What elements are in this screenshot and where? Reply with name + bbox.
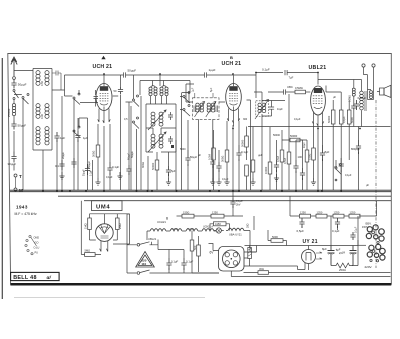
svg-text:0,02µF: 0,02µF: [358, 96, 367, 100]
switch mains2: [137, 270, 158, 274]
tube1 pin drops: [98, 124, 110, 190]
capacitor under osc d: [185, 120, 197, 190]
capacitor 30pF: [8, 152, 17, 171]
cap 296: [293, 140, 302, 190]
svg-text:α/: α/: [47, 275, 52, 281]
tube socket view 1: [366, 225, 384, 244]
svg-text:O.LU: O.LU: [34, 247, 40, 250]
svg-text:UCH21: UCH21: [157, 220, 166, 224]
resistor pwr2: [197, 236, 201, 272]
svg-text:M.F = 475 kHz: M.F = 475 kHz: [15, 212, 37, 216]
svg-text:0,5M: 0,5M: [283, 158, 287, 164]
label UBL21: [309, 65, 327, 71]
bottom wire: [158, 272, 219, 274]
resistor 30ohm bottom: [244, 267, 391, 274]
svg-text:50000: 50000: [290, 134, 298, 138]
svg-text:50µµF: 50µµF: [84, 169, 86, 176]
svg-text:300Ω: 300Ω: [92, 151, 96, 157]
switch S1a: [13, 90, 19, 100]
capacitor 219: [216, 150, 221, 185]
svg-text:220V.: 220V.: [365, 265, 373, 269]
svg-text:50000: 50000: [327, 115, 331, 123]
svg-text:UCH 21: UCH 21: [93, 64, 113, 70]
svg-text:1250: 1250: [300, 210, 306, 214]
osc top rail: [140, 81, 190, 96]
switch S2b: [180, 93, 190, 117]
svg-text:4150: 4150: [215, 222, 221, 226]
ground bus main: [10, 190, 391, 192]
T3 coil: [255, 100, 269, 120]
detector coupling cap: [268, 85, 295, 94]
svg-text:µF: µF: [333, 96, 336, 99]
svg-text:5µF: 5µF: [210, 87, 213, 92]
svg-text:0,5µF: 0,5µF: [297, 229, 305, 233]
marker A: [101, 56, 105, 59]
capacitor below coil: [11, 121, 26, 152]
svg-text:1250: 1250: [350, 210, 356, 214]
svg-text:5000: 5000: [272, 235, 278, 239]
svg-text:0,1µF: 0,1µF: [342, 116, 346, 123]
coil L5: [36, 127, 40, 145]
svg-text:50000: 50000: [273, 134, 281, 137]
svg-text:UM4: UM4: [96, 205, 110, 211]
resistor right1: [327, 100, 335, 190]
svg-text:2MΩ: 2MΩ: [118, 223, 122, 229]
svg-text:UY 21: UY 21: [303, 239, 318, 245]
svg-text:UBL21: UBL21: [309, 65, 327, 71]
right mid components: [351, 127, 361, 191]
osc switch contacts lower: [133, 117, 140, 129]
rotated label osc: [128, 152, 146, 168]
trimmer cap B: [168, 136, 174, 148]
capacitor 8uF a: [322, 246, 335, 266]
T3 vertical wire: [247, 92, 263, 190]
svg-text:7µF: 7µF: [289, 76, 294, 80]
capacitor under tube1: [107, 145, 119, 190]
power wiring left: [127, 214, 137, 273]
resistor under UBL: [307, 148, 316, 185]
wire coils to mixer grid: [52, 90, 79, 140]
svg-text:UBC: UBC: [287, 85, 293, 89]
svg-text:µF: µF: [198, 154, 201, 157]
svg-text:5µF: 5µF: [171, 169, 176, 173]
chassis dash-dot line: [375, 100, 377, 268]
resistor UM4 right: [113, 214, 122, 240]
svg-text:800µµF: 800µµF: [351, 147, 360, 151]
svg-text:B: B: [230, 55, 233, 60]
socket heater wire: [358, 244, 366, 246]
capacitor 50pF antenna: [11, 80, 26, 89]
speaker voice coil: [368, 90, 374, 100]
socket label 220V: [365, 265, 373, 269]
resistor 307: [305, 140, 309, 190]
svg-text:UCH21: UCH21: [187, 229, 195, 231]
vibrator wires: [231, 246, 297, 277]
left bus vertical: [65, 75, 73, 96]
label 6V: [209, 244, 219, 255]
svg-text:0,1: 0,1: [55, 164, 59, 168]
cap pair mid left: [114, 75, 124, 190]
output transformer: [318, 80, 366, 127]
cap right rotated label: [350, 226, 357, 240]
svg-text:1250: 1250: [317, 210, 323, 214]
svg-text:0,1µF: 0,1µF: [112, 165, 119, 169]
cap 302: [296, 140, 305, 190]
switch S1c: [73, 93, 98, 105]
svg-text:100: 100: [298, 155, 303, 159]
chain cap b: [332, 218, 340, 233]
chain r5: [333, 210, 349, 218]
chain r3: [290, 210, 316, 218]
svg-text:0,1µF: 0,1µF: [171, 260, 178, 264]
terminal M: [14, 177, 23, 193]
svg-text:5MΩ: 5MΩ: [85, 249, 91, 253]
svg-text:50µµF: 50µµF: [18, 124, 27, 128]
svg-text:BELL 48: BELL 48: [13, 275, 37, 281]
capacitor T2 below: [210, 158, 215, 185]
svg-text:1250: 1250: [334, 210, 340, 214]
tube UCH21 no1: [96, 84, 112, 124]
switch S1b: [14, 94, 29, 191]
svg-text:2kV: 2kV: [236, 202, 241, 206]
capacitor left drop2: [71, 158, 76, 168]
resistor 289: [283, 94, 291, 190]
svg-text:11µF: 11µF: [277, 107, 283, 111]
resistor 270: [264, 127, 272, 190]
capacitor left drop3: [84, 160, 93, 190]
resistor 213: [207, 130, 215, 190]
right bus y128: [234, 86, 391, 127]
trimmer cap A: [168, 112, 173, 120]
BELL 48 box: [11, 272, 60, 281]
antenna terminal: [13, 77, 16, 80]
svg-text:0,5: 0,5: [124, 118, 128, 121]
T2 wires: [186, 84, 225, 190]
choke vertical: [248, 246, 252, 267]
label UY21: [303, 239, 318, 245]
svg-text:8µF: 8µF: [322, 247, 327, 251]
resistor under osc a: [151, 160, 159, 190]
svg-text:8µF: 8µF: [325, 150, 330, 154]
resistor right2: [339, 92, 346, 190]
svg-text:0.50: 0.50: [40, 80, 44, 86]
resistor 246: [240, 127, 248, 161]
resistor 250 zigzag: [331, 216, 358, 272]
svg-text:30Ω: 30Ω: [259, 267, 264, 271]
heater chain row: [150, 226, 216, 232]
svg-text:T: T: [19, 174, 22, 179]
capacitor under osc: [166, 166, 176, 185]
grid connections tube1: [94, 90, 119, 107]
svg-text:PU: PU: [35, 252, 39, 255]
bus line2: [58, 195, 391, 197]
svg-text:1250: 1250: [212, 210, 218, 214]
svg-text:1µµF: 1µµF: [209, 68, 216, 72]
coil 2500ohm: [7, 100, 16, 121]
svg-text:5000: 5000: [180, 148, 186, 151]
chain r4: [316, 210, 333, 218]
rotary band switch: [25, 235, 40, 255]
svg-text:2500Ω: 2500Ω: [7, 109, 11, 117]
svg-text:0,1µF: 0,1µF: [236, 199, 243, 203]
svg-text:50000: 50000: [240, 139, 244, 147]
osc vertical drops: [131, 93, 190, 191]
top right bus caps: [256, 68, 318, 99]
UM4 wiring loop: [90, 214, 130, 244]
svg-text:UCH21: UCH21: [171, 229, 179, 231]
svg-text:0,1µF: 0,1µF: [262, 68, 270, 72]
resistor 4150 box: [210, 222, 230, 231]
label 8uF 450V: [335, 247, 345, 255]
trimmer cap top: [52, 71, 61, 91]
svg-text:UCH 21: UCH 21: [222, 61, 242, 67]
svg-text:50µµF: 50µµF: [131, 150, 134, 158]
svg-text:50µµF: 50µµF: [128, 69, 137, 73]
tube2 plate wire: [234, 75, 257, 84]
bottom long wire: [192, 273, 391, 277]
resistor 246b: [245, 165, 249, 190]
chain r6: [349, 210, 377, 218]
capacitor pwr1: [158, 245, 178, 273]
tube UM4: [96, 214, 114, 252]
T3 top wire: [262, 101, 285, 117]
capacitor 8uF b: [350, 246, 357, 266]
svg-text:5000: 5000: [350, 117, 354, 123]
svg-text:0.30: 0.30: [40, 113, 44, 119]
svg-text:250Ω: 250Ω: [339, 268, 346, 272]
label 1943: [15, 205, 37, 217]
schematic border frame: [8, 54, 392, 285]
heater row right: [226, 223, 257, 252]
svg-text:0,5M: 0,5M: [276, 156, 280, 162]
antenna coil L1: [36, 71, 40, 86]
svg-text:110: 110: [141, 262, 146, 266]
tuned coil group A: [148, 110, 166, 130]
svg-text:150Ω: 150Ω: [183, 210, 189, 214]
socket label B5V: [366, 221, 372, 225]
resistor 253: [250, 127, 255, 186]
svg-text:OND: OND: [34, 237, 40, 240]
cap 341 low: [334, 158, 344, 190]
vibrator unit: [219, 247, 245, 272]
bus line3: [84, 200, 391, 202]
RF coupling coil pair A: [149, 86, 157, 104]
svg-text:300Ω: 300Ω: [221, 156, 225, 162]
chain cap a: [297, 218, 305, 233]
svg-text:50µµF: 50µµF: [88, 160, 91, 168]
coil L6: [45, 127, 49, 145]
label UM4 box: [92, 201, 123, 211]
IF can T3: [256, 101, 269, 117]
RF coupling coil pair B: [160, 86, 168, 104]
svg-text:20µµF: 20µµF: [62, 151, 65, 159]
resistor 0.5M horizontal: [295, 86, 310, 94]
terminal T: [14, 174, 22, 179]
misc value labels: [62, 96, 369, 187]
chain resistor 1250: [194, 210, 233, 218]
coil L3: [36, 104, 40, 119]
svg-text:0,1µF: 0,1µF: [106, 176, 113, 179]
resistor 5000 horiz: [268, 230, 287, 246]
svg-text:0,1µF: 0,1µF: [241, 150, 248, 154]
antenna: [11, 57, 17, 76]
svg-text:50000: 50000: [151, 162, 155, 170]
warning triangle 220V: [136, 252, 155, 268]
svg-text:10µF: 10µF: [303, 142, 306, 148]
svg-text:50: 50: [114, 89, 117, 93]
svg-text:450V: 450V: [338, 250, 345, 255]
svg-text:1MΩ: 1MΩ: [83, 223, 87, 229]
scan page edge: [1, 58, 3, 299]
svg-text:0,5MΩ: 0,5MΩ: [350, 95, 352, 102]
svg-text:30µµF: 30µµF: [8, 162, 17, 166]
T2 coil group b: [206, 102, 216, 118]
svg-text:300Ω: 300Ω: [142, 162, 145, 168]
resistor horizontal 296: [282, 134, 307, 142]
switch S2a: [180, 92, 190, 104]
tube2 pin drops: [227, 121, 239, 190]
svg-text:0,1µF: 0,1µF: [222, 178, 229, 181]
svg-text:0,5MΩ: 0,5MΩ: [295, 86, 303, 90]
svg-text:1µF: 1µF: [192, 87, 195, 92]
chain verticals: [254, 196, 377, 230]
osc switch contacts upper: [133, 75, 140, 107]
resistor 282: [276, 130, 284, 190]
cap 276: [274, 140, 279, 190]
svg-text:0,1µF: 0,1µF: [355, 226, 358, 233]
cap 128: [126, 102, 133, 190]
capacitor 1uF left: [54, 132, 65, 190]
capacitor under UBL: [320, 145, 330, 190]
T3 trimmer cap: [269, 105, 283, 112]
label 150V: [362, 225, 369, 229]
tube socket view 2: [367, 244, 385, 262]
svg-text:0,1µF: 0,1µF: [332, 229, 340, 233]
switch mains1: [137, 240, 158, 247]
label UCH21 no2: [222, 55, 242, 67]
svg-text:30Ω: 30Ω: [246, 223, 249, 228]
osc frame rails: [146, 104, 176, 152]
ground row: [59, 172, 279, 181]
svg-text:500: 500: [193, 245, 197, 250]
resistor UM4 left: [83, 214, 96, 240]
left vertical drops: [62, 96, 88, 190]
T2 top labels: [192, 87, 214, 98]
B+ line left part: [245, 245, 296, 247]
resistor right of trio: [350, 80, 357, 127]
svg-text:50µµF: 50µµF: [190, 156, 198, 159]
svg-text:0,1µF: 0,1µF: [186, 260, 193, 264]
resistor pwr: [190, 231, 197, 274]
svg-text:B5V.: B5V.: [366, 221, 372, 225]
svg-text:1µF: 1µF: [60, 136, 65, 140]
svg-text:µF: µF: [366, 184, 369, 187]
svg-text:GO: GO: [35, 242, 39, 245]
resistor right3: [347, 100, 354, 160]
svg-text:UBA-UY21: UBA-UY21: [229, 232, 242, 236]
capacitor pwr2: [169, 250, 193, 274]
coil L4: [40, 104, 49, 119]
dial lamp: [214, 228, 224, 233]
resistor under tube2: [221, 150, 230, 185]
svg-text:B: B: [166, 217, 168, 221]
chain resistor 150: [177, 210, 195, 218]
heater label UBL21: [147, 231, 157, 241]
UBL pin drops: [314, 124, 323, 190]
tube UBL21: [311, 73, 326, 127]
T2 edge caps: [194, 106, 218, 113]
svg-text:µµF: µµF: [258, 154, 263, 157]
tube UCH21 no2: [226, 84, 242, 124]
heater label B: [157, 217, 168, 225]
svg-text:1943: 1943: [16, 205, 28, 210]
svg-text:150Ω: 150Ω: [307, 154, 311, 160]
svg-text:UCH21 A: UCH21 A: [203, 226, 213, 229]
svg-text:6V: 6V: [210, 251, 215, 255]
wave switch contacts right: [335, 160, 342, 181]
capacitor right top: [354, 96, 367, 110]
tube UY21: [298, 246, 323, 271]
capacitor left drop1: [55, 160, 65, 170]
svg-text:UBL21: UBL21: [148, 237, 157, 241]
IF can T2: [193, 98, 220, 120]
T2 coil group a: [195, 102, 205, 118]
capacitor 0.1 2kV: [230, 192, 243, 216]
B+ line UY: [295, 240, 358, 246]
wire antenna to coil box: [14, 69, 52, 191]
label UCH21 no1: [93, 64, 113, 70]
tuned coil group B: [148, 132, 166, 152]
svg-text:300: 300: [243, 118, 248, 121]
antenna coil L2: [40, 71, 49, 86]
top bus capacitor 50pF: [65, 69, 161, 84]
resistor UM4 bottom: [81, 201, 101, 257]
svg-text:10000: 10000: [264, 166, 268, 174]
svg-text:50µµF: 50µµF: [18, 83, 27, 87]
svg-text:1µF: 1µF: [83, 136, 88, 140]
svg-text:0,3M: 0,3M: [207, 154, 211, 160]
capacitor under tube2: [236, 145, 248, 190]
svg-text:0,1µF: 0,1µF: [345, 174, 352, 177]
capacitor 4uF: [75, 131, 88, 190]
output terminals: [362, 64, 375, 90]
resistor under tube1: [92, 145, 101, 185]
speaker: [377, 85, 391, 97]
top bus capacitor 2: [160, 68, 233, 86]
switch S1d: [73, 126, 80, 138]
svg-text:0,1µF: 0,1µF: [294, 118, 301, 121]
